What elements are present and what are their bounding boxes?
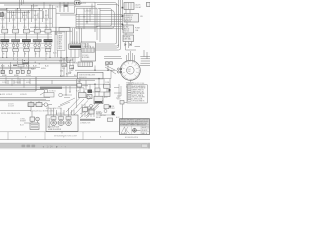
svg-text:0.85L: 0.85L [58,42,62,44]
ignition coil T2 [11,27,20,57]
circle right mid [104,110,107,113]
wire mid bus [0,57,79,63]
svg-text:A-05X: A-05X [81,2,87,5]
zone digits [25,136,102,138]
connector dot J1 [76,2,78,4]
junction dot A [94,70,95,71]
svg-text:2B: 2B [2,54,4,56]
page border inner [0,131,150,133]
svg-text:ST2: ST2 [111,71,114,73]
cluster X3 [106,62,113,65]
harness outline rect 5 [98,9,112,26]
svg-text:W-L: W-L [74,75,77,77]
wire LB1 [24,111,38,123]
circle node N1 [89,104,92,107]
wire stub below assembly [61,131,63,133]
box mid column A [62,64,66,67]
connector ring P2 [58,120,64,126]
harness outline rect 6 [100,11,114,28]
connector row CN4 [21,70,24,73]
svg-text:0.85L-W 4: 0.85L-W 4 [125,19,132,21]
svg-text:CONNECTOR: CONNECTOR [80,122,91,124]
left bottom component LB1 [30,117,39,129]
box mid column B [70,66,74,69]
label bar LS [80,119,95,121]
relay R4 [123,35,134,42]
svg-text:1.25B: 1.25B [58,33,62,35]
box U4 [94,96,103,104]
relay R2 [124,14,139,23]
wire ecu links [92,70,111,92]
box right mid B [104,105,109,109]
wire mid crossing [30,27,97,35]
connector row CN1 [1,70,4,73]
svg-text:1.25G: 1.25G [26,75,31,77]
label cluster left [8,103,14,107]
svg-text:0.85G: 0.85G [41,68,46,70]
svg-text:42-4011: 42-4011 [142,130,148,132]
svg-text:BLUE SKY BLUE: BLUE SKY BLUE [132,93,146,95]
junction dots mid [60,57,70,61]
wire upper-left feeders [0,2,68,35]
wire switch feeds top [127,51,135,61]
svg-text:15A IG1: 15A IG1 [55,6,62,9]
wire br slants [80,104,99,118]
svg-text:0.85B-W: 0.85B-W [96,113,103,115]
svg-text:1.25B: 1.25B [58,46,62,48]
wire coil row rails [0,34,52,48]
dark label J3 [23,63,30,65]
svg-text:LT-GRN 1.25B: LT-GRN 1.25B [132,99,143,101]
power box U2 [78,72,104,79]
svg-text:B-03: B-03 [23,27,26,29]
junction box J1 [75,1,81,5]
callout circle G3 [59,93,63,97]
connector ring P3 [66,120,72,126]
right column rail [122,0,124,30]
junction dot D [94,84,95,85]
svg-text:G-B: G-B [63,65,66,67]
junction dot C [98,78,99,79]
svg-text:2B: 2B [35,54,37,56]
rail terminal marks [122,7,124,25]
connector row CN2 [9,70,12,73]
ignition coil T3 [22,27,31,57]
junction box J2 dark [0,13,3,17]
wire T6 drops [71,49,79,62]
junction dots feeders [2,4,50,12]
wire below switch [129,80,131,82]
dark tick U5 [109,89,111,92]
svg-text:FUSIBLE: FUSIBLE [124,37,131,39]
svg-text:0.85: 0.85 [59,61,62,63]
label right mid [110,99,121,119]
ignition coil T5 [44,27,53,57]
svg-text:1.25: 1.25 [1,20,4,22]
wire slants [66,98,103,117]
wire drops bus B [8,77,84,95]
wire legend bracket [114,84,121,98]
lower subcircuit verticals [82,104,94,117]
ignition coil T1 [0,27,9,57]
wire lower-left links [0,57,40,70]
svg-text:0.85: 0.85 [74,62,77,64]
svg-text:1 2 3 4 5 6: 1 2 3 4 5 6 [70,42,79,44]
svg-text:0.85B 0.85W 1.25B: 0.85B 0.85W 1.25B [46,108,62,110]
pin strip X2 [78,62,93,67]
callout circle G2 [44,103,48,107]
wire lower bus B [0,84,95,91]
junction dot B [107,70,108,71]
resistor block RB2 [36,103,42,107]
svg-text:ST2 15: ST2 15 [124,30,129,32]
junction dots slants [65,91,84,95]
ignition coil T4 [33,27,42,57]
wire X1 feeders [86,44,94,48]
label coil ids [1,14,49,17]
svg-text:VIOLET WHITE: VIOLET WHITE [132,95,144,97]
svg-text:A-01: A-01 [1,14,5,17]
page border outer [0,139,150,141]
harness outline rect 1 [88,3,117,44]
svg-text:0.85B 2B: 0.85B 2B [82,44,89,46]
svg-text:1.25B-R 8: 1.25B-R 8 [125,17,132,19]
harness outline rect 3 [92,0,119,48]
wire mid column drops [61,57,73,77]
connector assembly box [46,115,78,131]
label ecu extra [76,81,109,92]
toolbar buttons left [22,145,36,148]
svg-text:2B-W 16: 2B-W 16 [125,21,131,23]
box U3c [77,84,82,88]
connector row CN5 [27,70,30,73]
diode symbols right column [125,43,132,46]
svg-text:YELLOW SILVER: YELLOW SILVER [132,97,146,99]
svg-text:R-L: R-L [71,70,74,72]
wire ecu left rail [76,79,78,108]
connector pair left of switch [117,68,122,73]
resistor block RB1 [28,103,34,107]
svg-text:B-02: B-02 [12,27,15,29]
noise filter box NF1 [44,93,54,98]
svg-text:B-22: B-22 [60,75,63,77]
diode blob D1 [88,90,93,94]
harness outline rect 2 [90,5,119,46]
page background [0,0,150,150]
wire JC1 rails [55,31,67,62]
svg-text:B-04: B-04 [34,27,37,29]
svg-text:OPTION WIRE R: OPTION WIRE R [132,100,145,102]
wire legend drop [123,103,128,119]
svg-text:E-02: E-02 [104,97,108,99]
svg-text:B-05: B-05 [45,27,48,29]
svg-text:2B: 2B [13,54,15,56]
ECU subcircuit verticals [80,79,110,96]
label bar dark strip [40,87,62,89]
svg-text:MITSUBISHI MOTORS CORP.: MITSUBISHI MOTORS CORP. [54,135,78,137]
svg-text:POWER TR: POWER TR [82,46,91,48]
svg-text:▶: ▶ [56,146,58,149]
svg-text:0.85G: 0.85G [58,48,63,50]
wire left drops to coils [0,0,53,30]
svg-text:A-05: A-05 [45,14,49,17]
wire link bus [75,57,122,71]
box LS1 [83,108,88,112]
harness step outline 1 [56,6,95,13]
svg-text:1.25: 1.25 [23,20,26,22]
flag mark [112,112,116,118]
svg-text:MMC E: MMC E [142,133,147,135]
arrow to switch [105,65,118,74]
label row codes [1,20,48,28]
svg-text:1.25G: 1.25G [58,40,63,42]
wire flag link [100,114,111,116]
junction dots bus [83,16,97,27]
label bus A [2,82,30,84]
callout circle G1 [44,89,48,93]
crossing box [59,28,70,32]
svg-text:SW: SW [128,71,131,73]
label callout text mid [78,82,108,116]
svg-text:A-04: A-04 [34,14,38,17]
title block [120,118,150,135]
distributor block X1 [81,42,96,61]
svg-text:B-05: B-05 [53,52,57,54]
box U3b [87,95,92,99]
svg-text:A-31X: A-31X [0,93,6,96]
svg-text:1 / 14: 1 / 14 [47,146,54,149]
connector dot J1b [78,2,80,4]
svg-text:0.85L: 0.85L [26,82,30,84]
svg-text:B-26 ENG: B-26 ENG [82,57,90,59]
junction dots mid bus [2,57,50,64]
wire bus verticals [6,77,36,91]
svg-text:JOINT: JOINT [110,108,115,110]
svg-text:1.25: 1.25 [45,20,48,22]
wire cluster links [0,101,52,111]
svg-text:2B: 2B [46,54,48,56]
wire lower bus C [0,98,50,101]
svg-text:1.25: 1.25 [12,20,15,22]
zone divider ticks [8,132,83,140]
label LS rows [80,113,107,125]
svg-text:◄: ◄ [42,146,44,149]
relay R3 [123,25,134,33]
svg-text:1.25: 1.25 [34,20,37,22]
ignition coil T6 [69,44,83,49]
label bus C [6,94,27,96]
wire leader lines [58,95,75,107]
wire switch feeds right [140,50,150,65]
logo mark [121,127,127,134]
svg-text:B-20: B-20 [45,65,49,67]
svg-text:1 2 3 4 5: 1 2 3 4 5 [82,55,88,57]
wire coil T6 feeders [70,28,82,44]
svg-text:2B: 2B [24,54,26,56]
svg-text:0.85: 0.85 [60,71,63,73]
connector ring P1 [51,120,57,126]
harness outline rect 4 [94,0,121,50]
toolbar content [42,146,67,149]
viewer toolbar [0,143,150,149]
label LB1 [20,118,27,126]
svg-text:B-W: B-W [67,62,71,64]
toolbar right button [142,144,148,147]
svg-text:0.85B-R: 0.85B-R [6,94,13,96]
svg-text:B-03: B-03 [20,125,24,127]
box U5 [104,84,111,88]
wire coil link [0,36,52,38]
svg-text:SHEET 12: SHEET 12 [142,127,150,129]
wire right column drops [126,10,141,51]
svg-text:42-4011-02 E: 42-4011-02 E [125,137,139,139]
boxes inside assembly [51,117,56,120]
svg-text:0.85B 2B 0.85W R: 0.85B 2B 0.85W R [48,129,62,131]
label under bus [1,65,49,76]
svg-text:B-06 B-07 B-08: B-06 B-07 B-08 [48,127,59,129]
svg-text:GREEN PINK W: GREEN PINK W [132,90,145,92]
harness step outline 2 [60,8,97,15]
connector strip X1 pins [82,48,95,52]
box U5b [95,88,100,92]
svg-text:0.85B-W 12: 0.85B-W 12 [125,15,134,17]
svg-text:0.85B-W: 0.85B-W [20,94,27,96]
svg-text:IG SW: IG SW [124,26,129,28]
wire right bus to column [76,8,123,42]
ignition switch SW1 [120,60,140,80]
junction box J3 [18,64,24,67]
right edge box [147,2,151,6]
box U6 [104,92,110,97]
circle node N2 [87,96,90,99]
label mid column [59,58,77,77]
svg-text:A-02: A-02 [12,14,16,17]
wire to G1 [0,90,45,96]
svg-text:TO ECU: TO ECU [49,91,56,93]
svg-text:ENSER: ENSER [20,121,27,123]
box U3 [79,93,87,98]
junction blob top [64,4,68,6]
svg-text:1.25B: 1.25B [105,82,109,84]
svg-text:B-01: B-01 [2,27,5,29]
wire assembly feeds [48,105,74,117]
svg-text:A-03: A-03 [23,14,27,17]
dark tick right mid [109,106,111,108]
svg-text:B-11 B-12: B-11 B-12 [56,113,64,115]
junction label column JC1 [57,32,65,51]
svg-text:L-W: L-W [71,68,74,70]
wire top bus [0,2,95,32]
svg-text:IG2-KEY: IG2-KEY [31,6,39,8]
svg-text:0.85W: 0.85W [58,35,63,37]
svg-text:RELAY: RELAY [136,6,143,9]
svg-text:NOTE: SEE PAGE 8-26: NOTE: SEE PAGE 8-26 [1,112,20,115]
box right mid A [120,101,124,105]
relay R1 [124,3,134,10]
box LS3 [108,118,113,122]
connector row CN3 [16,70,19,73]
compass symbol [133,128,137,132]
wire color legend table [127,83,147,103]
ticks between rings [48,118,65,128]
box LS2 [89,110,94,114]
svg-text:0.5G-W: 0.5G-W [8,106,14,108]
svg-text:C-09: C-09 [117,99,121,101]
label below switch [126,82,134,88]
wire lower bus A [0,77,111,80]
